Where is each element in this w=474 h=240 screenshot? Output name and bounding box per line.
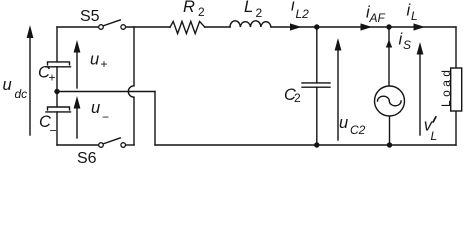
arrowhead u+: [74, 40, 81, 53]
node dot C2 top: [314, 24, 319, 29]
svg-text:u: u: [90, 51, 99, 69]
svg-text:S5: S5: [80, 8, 100, 25]
switch S5 blade: [103, 20, 120, 26]
wire bottom output rail: [155, 144, 456, 146]
svg-text:u: u: [339, 114, 348, 132]
arrowhead i_L: [414, 23, 426, 30]
svg-text:2: 2: [294, 91, 301, 105]
svg-text:S6: S6: [77, 150, 97, 163]
wire midpoint down corner: [154, 92, 156, 146]
source U1 circle: [375, 86, 405, 116]
arrowhead i_AF: [361, 23, 373, 30]
wire top rail left segment: [57, 26, 99, 28]
switch S6 blade: [103, 138, 120, 144]
switch S5 contact right: [121, 25, 126, 30]
switch S5 contact left: [99, 25, 104, 30]
wire dc stack vertical top: [56, 27, 58, 62]
svg-text:+: +: [49, 71, 56, 85]
arrowhead v'_L: [417, 42, 424, 55]
node dot source top: [386, 24, 391, 29]
svg-text:dc: dc: [15, 87, 28, 101]
wire source branch lower: [389, 116, 391, 145]
arrowhead u_C2: [335, 38, 342, 51]
svg-text:L: L: [411, 9, 418, 23]
node dot C2 bottom: [314, 142, 319, 147]
wire S6 to phase riser: [125, 144, 134, 146]
arrow u+ line: [76, 51, 78, 88]
svg-text:2: 2: [198, 5, 205, 19]
inductor L2: [230, 21, 271, 27]
svg-text:R: R: [183, 0, 195, 16]
label v prime tick: [433, 117, 436, 122]
arrowhead u-: [74, 96, 81, 109]
svg-text:C2: C2: [350, 123, 366, 137]
svg-text:L: L: [244, 0, 253, 16]
wire top rail right segment: [271, 26, 456, 28]
svg-text:u: u: [91, 99, 100, 117]
svg-text:u: u: [3, 76, 12, 94]
arrow u- line: [76, 107, 78, 138]
wire bottom rail left segment: [57, 144, 99, 146]
wire dc stack vertical middle: [56, 67, 58, 107]
arrowhead u_dc: [27, 25, 34, 38]
source sine wave: [378, 96, 402, 106]
svg-text:−: −: [102, 110, 109, 124]
wire between R2 and L2: [205, 26, 230, 28]
switch S6 contact left: [99, 143, 104, 148]
wire top rail from S5 to R2: [125, 26, 170, 28]
wire C2 branch upper: [316, 27, 318, 83]
load box: [451, 68, 462, 111]
svg-text:+: +: [101, 57, 108, 71]
arrow v'_L line: [419, 53, 421, 135]
wire source branch upper: [388, 27, 390, 86]
capacitor C- plates: [46, 107, 71, 112]
svg-text:2: 2: [256, 6, 263, 20]
wire load to bottom rail: [455, 111, 457, 145]
wire dc stack vertical bottom: [56, 112, 58, 145]
svg-text:L2: L2: [296, 7, 310, 21]
wire phase riser upper: [133, 27, 135, 86]
wire right vertical to load: [455, 27, 457, 68]
node dot capacitor midpoint: [54, 89, 59, 94]
node dot source bottom: [387, 142, 392, 147]
arrowhead i_L2: [290, 23, 302, 30]
switch S6 contact right: [121, 143, 126, 148]
svg-text:−: −: [50, 124, 57, 138]
capacitor C2 plates: [302, 83, 330, 87]
wire hop over midpoint wire: [128, 86, 134, 97]
svg-text:S: S: [403, 38, 411, 52]
wire phase riser lower: [133, 97, 135, 145]
resistor R2: [170, 21, 205, 33]
arrow u_C2 line: [337, 49, 339, 140]
arrowhead i_S: [386, 40, 392, 48]
wire C2 branch lower: [316, 87, 318, 145]
capacitor C+ plates: [46, 62, 71, 67]
wire capacitor midpoint horizontal: [57, 91, 155, 93]
svg-text:L: L: [431, 129, 438, 143]
arrow u_dc line: [29, 37, 31, 135]
svg-text:AF: AF: [369, 11, 386, 25]
